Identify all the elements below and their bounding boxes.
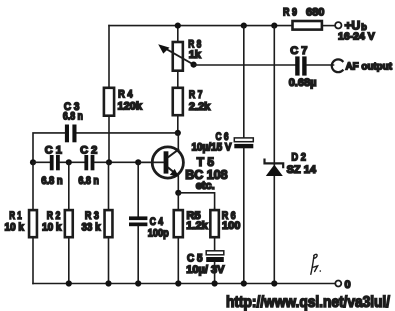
- resistor R7: [173, 88, 211, 115]
- node terminal AF output: [332, 59, 393, 72]
- capacitor C1: [41, 145, 63, 188]
- capacitor C4: [129, 162, 169, 283]
- svg-text:D 2: D 2: [291, 152, 306, 164]
- wiper arrow of R8: [158, 44, 193, 64]
- svg-text:10µ/15 V: 10µ/15 V: [192, 142, 233, 154]
- svg-text:C 5: C 5: [187, 253, 203, 265]
- svg-text:C 4: C 4: [150, 216, 164, 228]
- svg-text:C 2: C 2: [80, 145, 97, 157]
- resistor R6: [210, 208, 240, 251]
- transistor T5 BC108: [138, 147, 227, 192]
- svg-text:100p: 100p: [148, 228, 169, 240]
- svg-text:R 9: R 9: [283, 7, 297, 19]
- svg-text:10µ/ 3V: 10µ/ 3V: [186, 264, 225, 276]
- node terminal +Ub: [335, 19, 375, 43]
- diode D2 zener SZ14: [265, 26, 317, 284]
- svg-text:R 2: R 2: [47, 210, 61, 222]
- node base row left: [30, 159, 36, 165]
- wire R8/R7 column: top rail to collector node: [177, 26, 179, 133]
- node R8 wiper junction: [191, 62, 197, 68]
- svg-text:10 k: 10 k: [5, 222, 25, 234]
- svg-text:0: 0: [345, 279, 351, 291]
- handwritten mark: [311, 254, 321, 274]
- node junction top rail R8: [175, 23, 181, 29]
- resistor R4: [104, 88, 143, 116]
- node junction bottom R2: [66, 280, 72, 286]
- wire C3 left to corner down to base row: [33, 133, 65, 162]
- svg-text:120k: 120k: [118, 101, 143, 113]
- svg-text:10 k: 10 k: [42, 222, 62, 234]
- node junction top rail C6: [241, 23, 247, 29]
- wire collector to transistor: [177, 133, 179, 150]
- svg-text:C 1: C 1: [45, 145, 62, 157]
- svg-text:100: 100: [222, 220, 240, 232]
- wire left rail down through R4 to base row: [108, 26, 110, 163]
- node junction C4 on base row: [135, 159, 141, 165]
- node junction top rail D2: [271, 23, 277, 29]
- node junction bottom C4: [135, 280, 141, 286]
- wire emitter to R6: [178, 193, 214, 209]
- svg-text:AF output: AF output: [346, 61, 393, 73]
- svg-text:1.2k: 1.2k: [186, 220, 208, 232]
- svg-text:680: 680: [306, 7, 324, 19]
- wire wiper to C7: [194, 64, 296, 66]
- wire collector node left to C3: [77, 132, 178, 134]
- node junction bottom D2: [271, 280, 277, 286]
- capacitor C5 (electrolytic): [186, 251, 225, 284]
- node junction bottom C6: [241, 280, 247, 286]
- node junction R4/R3 on base row: [106, 159, 112, 165]
- svg-text:0.68µ: 0.68µ: [289, 77, 317, 89]
- wire emitter down: [177, 175, 179, 193]
- node emitter junction: [175, 190, 181, 196]
- resistor R3: [82, 162, 113, 283]
- svg-text:33 k: 33 k: [82, 222, 102, 234]
- resistor R8 (potentiometer): [173, 39, 202, 71]
- svg-text:16-24 V: 16-24 V: [338, 31, 375, 43]
- capacitor C7: [289, 45, 317, 89]
- svg-text:http://www.qsl.net/va3iul/: http://www.qsl.net/va3iul/: [226, 294, 391, 311]
- svg-text:C 7: C 7: [290, 45, 307, 57]
- wire C1 to C2: [60, 161, 85, 163]
- node junction C1-C2 / R2: [66, 159, 72, 165]
- svg-text:SZ 14: SZ 14: [287, 164, 317, 176]
- node junction bottom C5: [212, 280, 218, 286]
- wire base row left segment: [33, 161, 50, 163]
- resistor R9: [283, 7, 324, 30]
- wire top supply rail: [109, 25, 292, 27]
- svg-text:R 7: R 7: [189, 89, 203, 101]
- svg-text:2.2k: 2.2k: [189, 101, 211, 113]
- wire R9 right to +Ub terminal: [323, 25, 335, 27]
- svg-text:etc.: etc.: [196, 180, 215, 192]
- svg-text:R 3: R 3: [85, 210, 99, 222]
- svg-text:1k: 1k: [189, 49, 202, 61]
- resistor R5: [174, 193, 209, 284]
- wire C7 to AF output: [307, 64, 334, 66]
- node junction bottom R5: [175, 280, 181, 286]
- svg-text:6.8 n: 6.8 n: [63, 111, 83, 123]
- svg-text:R 1: R 1: [9, 210, 22, 222]
- svg-text:R 4: R 4: [118, 89, 133, 101]
- capacitor C3: [63, 101, 83, 142]
- wire C2 to base: [94, 161, 164, 163]
- resistor R2: [42, 162, 73, 283]
- svg-text:6.8 n: 6.8 n: [78, 175, 99, 187]
- node junction bottom R3: [105, 280, 111, 286]
- capacitor C2: [78, 145, 99, 188]
- node terminal 0: [335, 279, 350, 291]
- resistor R1: [5, 162, 37, 283]
- capacitor C6 (electrolytic): [192, 26, 254, 284]
- svg-text:6.8 n: 6.8 n: [41, 175, 63, 187]
- svg-text:T 5: T 5: [197, 155, 215, 169]
- wire bottom ground rail: [33, 283, 335, 285]
- node collector junction: [175, 130, 181, 136]
